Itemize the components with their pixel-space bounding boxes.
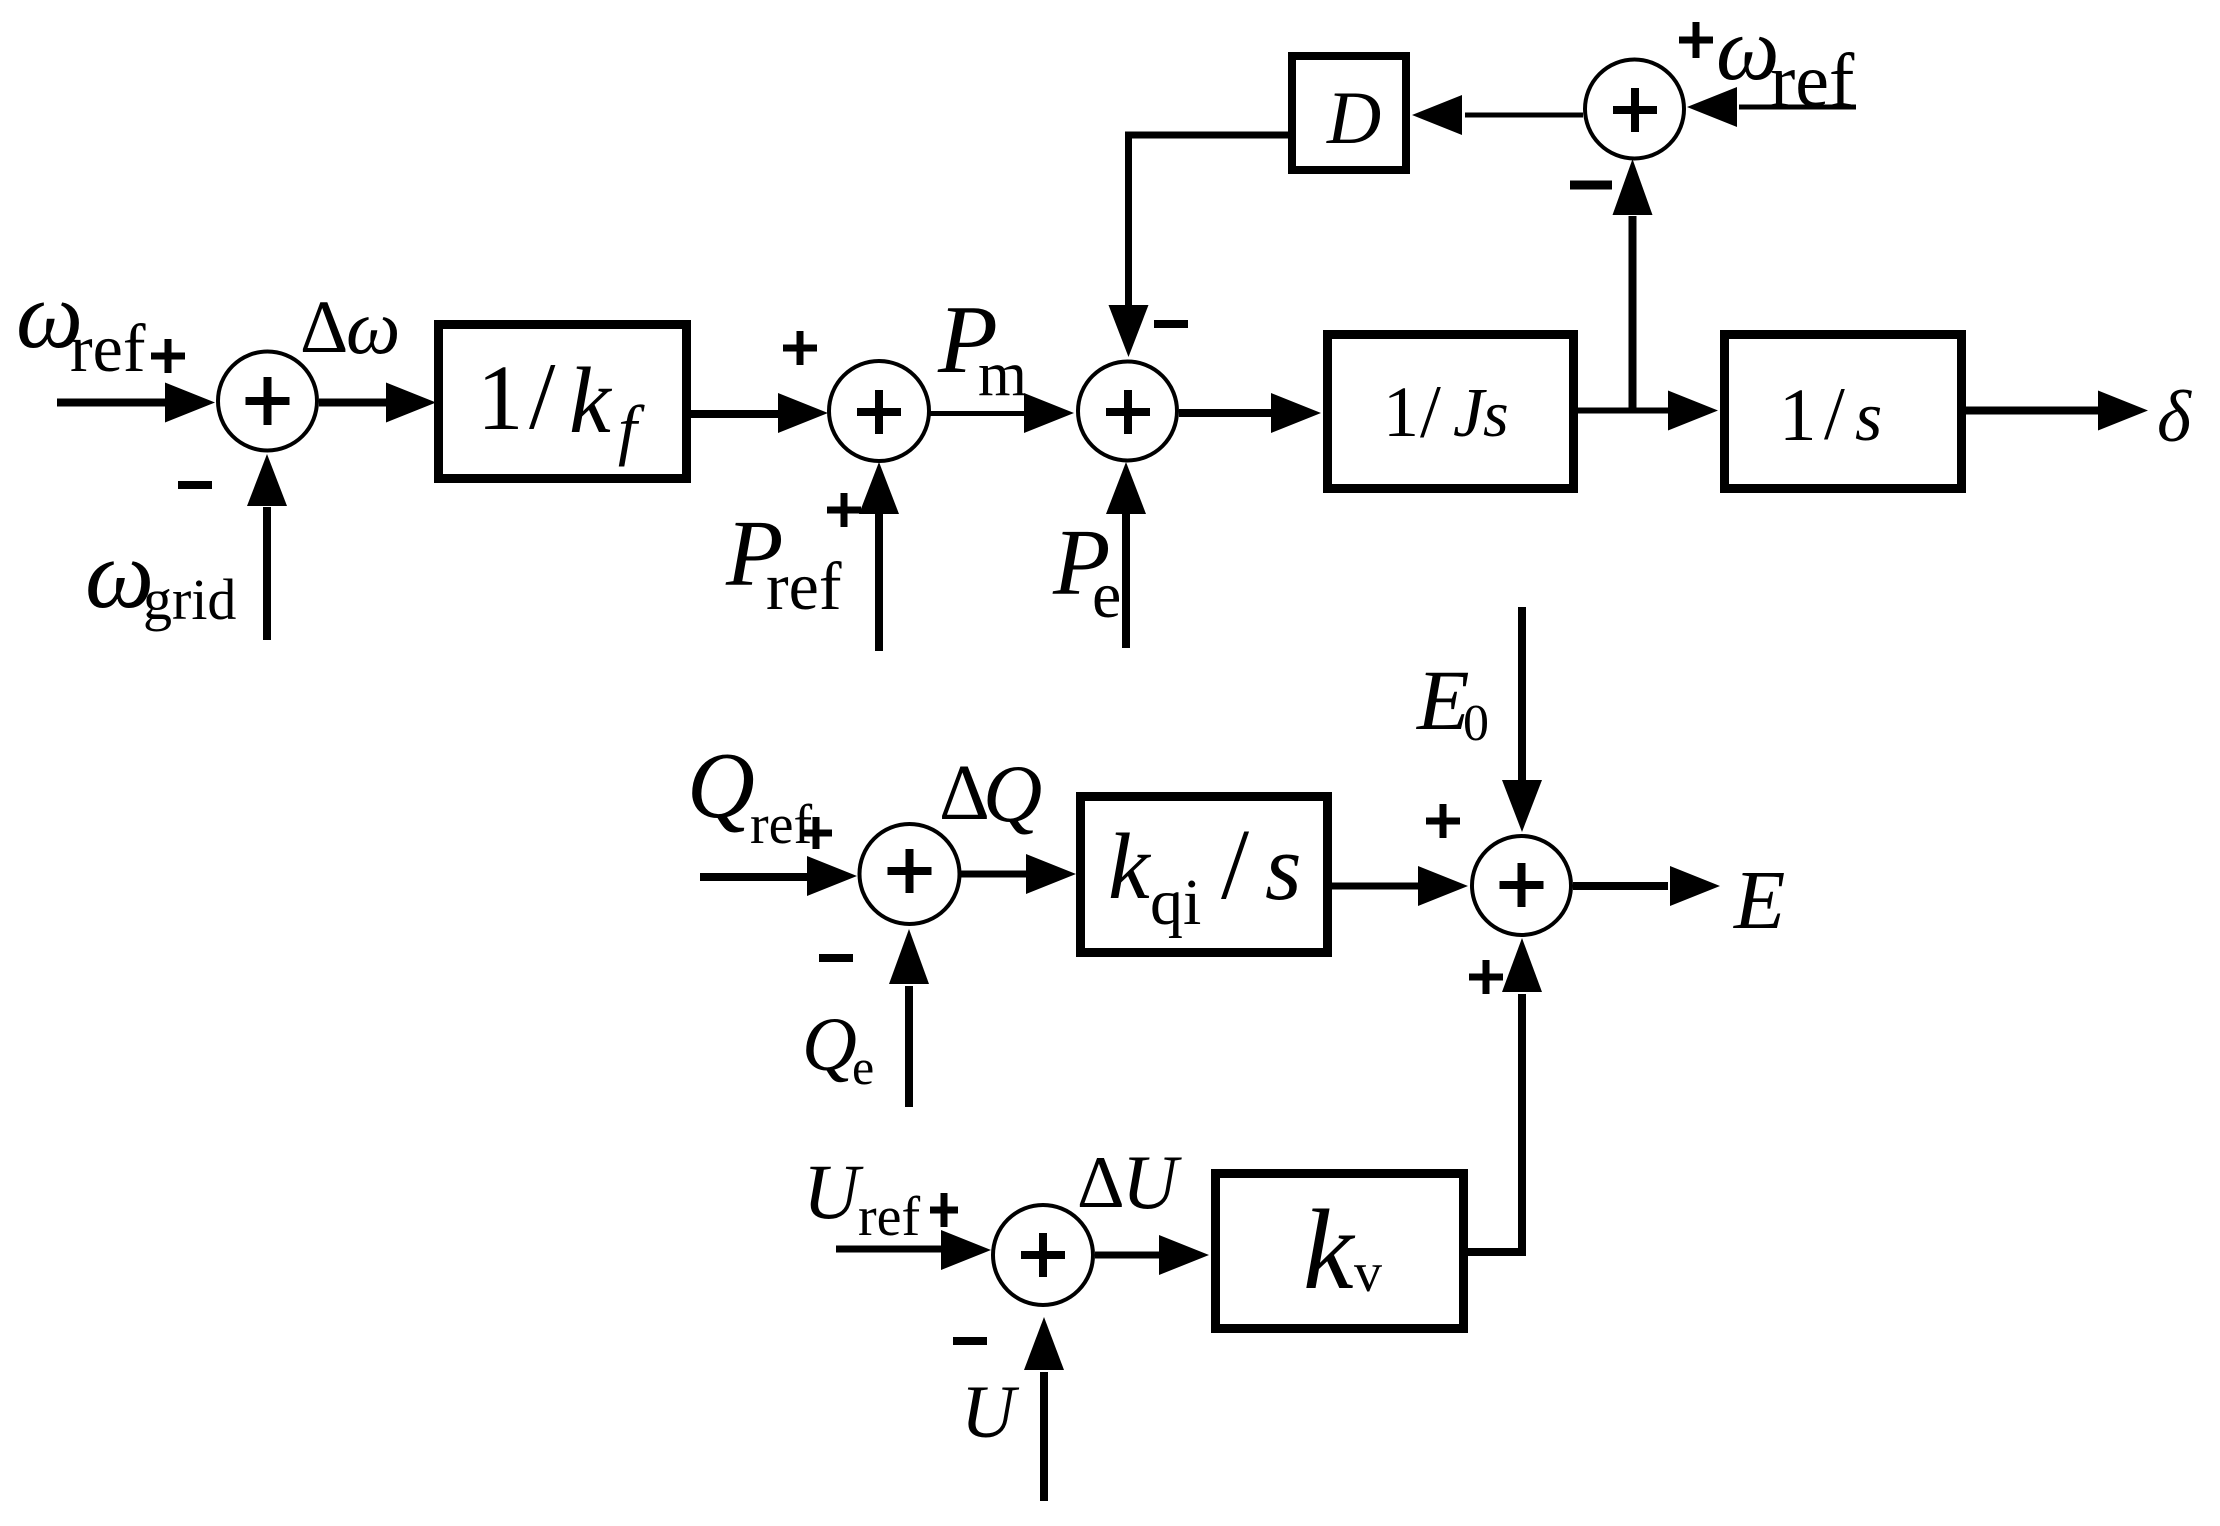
svg-text:s: s <box>1855 379 1882 456</box>
svg-text:k: k <box>1108 815 1152 919</box>
svg-text:/: / <box>529 343 556 449</box>
plus sign at S7 left input <box>930 1193 958 1227</box>
svg-text:ref: ref <box>858 1186 921 1248</box>
wire S5 to block kqi/s <box>961 854 1076 894</box>
summing junction S5 <box>860 824 960 924</box>
wire Q_ref into S5 <box>700 856 857 896</box>
wire S4 to block D <box>1412 95 1583 135</box>
plus sign at S6 top input <box>1426 804 1460 838</box>
svg-text:/: / <box>1221 808 1250 920</box>
wire D to S3 (left then down) <box>1109 132 1293 358</box>
wire U_ref into S7 <box>836 1230 991 1270</box>
svg-text:e: e <box>1092 559 1121 632</box>
wire k_v feedback riser up into S6 <box>1502 938 1542 1252</box>
wire 1/Js to 1/s <box>1578 391 1718 431</box>
wire U up into S7 <box>1024 1317 1064 1501</box>
svg-text:U: U <box>961 1371 1020 1454</box>
svg-text:Q: Q <box>802 1003 857 1087</box>
svg-text:k: k <box>1303 1186 1356 1313</box>
wire S6 to E output <box>1573 866 1720 906</box>
minus sign at S1 bottom input <box>178 481 212 489</box>
block 1/s <box>1725 335 1962 489</box>
wire ω_ref into S4 <box>1687 87 1856 127</box>
wire ω_ref into S1 <box>57 383 215 423</box>
wire P_ref up into S2 <box>859 462 899 651</box>
plus sign at S6 bottom input <box>1469 960 1503 994</box>
svg-text:s: s <box>1265 816 1302 920</box>
svg-text:D: D <box>1326 77 1381 160</box>
wire kqi/s to S6 <box>1332 866 1468 906</box>
block D <box>1292 56 1406 170</box>
svg-text:ref: ref <box>70 310 146 386</box>
wire S1 to block 1/kf <box>319 383 436 423</box>
svg-text:e: e <box>852 1039 874 1095</box>
minus sign at S4 bottom input <box>1570 181 1612 190</box>
wire k_v output to feedback corner <box>1466 1248 1526 1256</box>
label P_m <box>937 286 1027 409</box>
label ω_ref (top right input) <box>1716 0 1855 123</box>
wire S7 to block k_v <box>1095 1235 1209 1275</box>
svg-text:m: m <box>978 339 1027 409</box>
minus sign at S3 top input <box>1154 320 1188 328</box>
label P_e <box>1052 511 1121 632</box>
summing junction S3 <box>1078 362 1177 461</box>
svg-text:1: 1 <box>1779 374 1817 457</box>
svg-text:E: E <box>1733 854 1785 947</box>
svg-text:ref: ref <box>1770 39 1855 123</box>
svg-text:qi: qi <box>1150 866 1201 939</box>
wire 1/s to δ output <box>1965 391 2148 431</box>
summing junction S6 <box>1472 836 1571 935</box>
svg-text:/: / <box>1420 371 1441 454</box>
svg-text:Δ: Δ <box>300 286 348 369</box>
label ω_ref (top-left input) <box>16 262 146 386</box>
label U_ref <box>803 1148 921 1248</box>
plus sign at S2 bottom input <box>827 493 861 527</box>
wire Q_e up into S5 <box>889 929 929 1107</box>
label Q_ref <box>687 734 813 856</box>
label P_ref <box>725 502 842 624</box>
wire ω_grid up into S1 <box>247 454 287 640</box>
summing junction S2 <box>829 361 929 461</box>
wire P_e up into S3 <box>1106 462 1146 648</box>
wire S2 to S3 <box>930 393 1074 433</box>
label E_0 <box>1415 652 1489 752</box>
minus sign at S5 bottom input <box>819 954 853 962</box>
svg-text:/: / <box>1824 373 1845 456</box>
wire block 1/kf to S2 <box>691 393 828 433</box>
summing junction S7 <box>993 1205 1093 1305</box>
svg-text:k: k <box>569 349 613 453</box>
wire S3 to block 1/Js <box>1179 393 1321 433</box>
svg-text:s: s <box>1483 378 1509 451</box>
wire junction riser up to S4 <box>1613 159 1653 410</box>
label Δω <box>300 284 400 370</box>
svg-text:Q: Q <box>983 748 1042 839</box>
block kqi/s <box>1081 797 1328 953</box>
svg-text:v: v <box>1354 1242 1382 1304</box>
block 1/Js <box>1328 335 1574 489</box>
block 1/kf <box>439 325 687 479</box>
svg-text:E: E <box>1415 652 1470 748</box>
svg-text:ω: ω <box>346 284 400 370</box>
svg-text:U: U <box>1122 1139 1182 1225</box>
svg-text:Q: Q <box>687 734 755 838</box>
plus sign at S4 right input <box>1679 22 1713 58</box>
plus sign at S1 left input <box>151 339 185 373</box>
summing junction S4 (top right) <box>1585 60 1684 159</box>
label ω_grid <box>85 521 236 632</box>
svg-text:1: 1 <box>477 347 524 450</box>
summing junction S1 <box>218 352 317 451</box>
plus sign at S5 left input <box>800 817 832 849</box>
label ΔU <box>1077 1139 1182 1225</box>
svg-text:1: 1 <box>1383 372 1419 452</box>
svg-text:J: J <box>1453 375 1487 452</box>
svg-text:0: 0 <box>1463 695 1489 752</box>
label ΔQ <box>939 748 1042 839</box>
svg-text:U: U <box>803 1148 864 1235</box>
svg-text:Δ: Δ <box>1077 1142 1125 1224</box>
block k_v <box>1216 1174 1464 1329</box>
svg-text:grid: grid <box>143 567 236 632</box>
wire E_0 down into S6 <box>1502 607 1542 832</box>
plus sign at S2 left input <box>783 331 817 365</box>
svg-text:δ: δ <box>2157 376 2192 457</box>
svg-text:ref: ref <box>766 548 842 624</box>
svg-text:ref: ref <box>750 794 813 856</box>
label Q_e <box>802 1003 874 1095</box>
minus sign at S7 bottom input <box>953 1337 987 1345</box>
